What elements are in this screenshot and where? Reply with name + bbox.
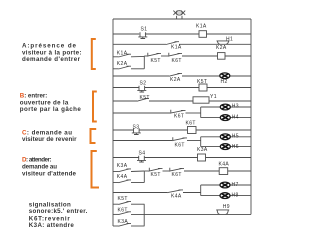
- svg-text:K5T: K5T: [118, 196, 128, 202]
- svg-text:H2: H2: [221, 79, 228, 85]
- solenoid valve Y1: [193, 97, 209, 103]
- lamp H3: [220, 104, 230, 110]
- svg-text:K3A: attendre: K3A: attendre: [29, 222, 75, 229]
- branch wire K3A signal: [113, 225, 119, 227]
- junction wire H7/H8: [200, 185, 202, 196]
- svg-text:K5T: K5T: [140, 95, 150, 101]
- svg-text:K4A: K4A: [219, 162, 230, 168]
- coil K3A: [198, 154, 206, 161]
- branch wire K5T signal: [113, 203, 119, 205]
- wire H8: [201, 195, 251, 197]
- svg-text:K2A: K2A: [170, 77, 181, 83]
- svg-text:K3A: K3A: [118, 219, 129, 225]
- coil K2A: [218, 53, 226, 60]
- pushbutton S2: [137, 86, 146, 92]
- svg-text:K6T: K6T: [172, 58, 182, 64]
- buzzer H1: [217, 41, 230, 44]
- contact K2A (hold branch): [119, 66, 132, 69]
- lamp H2: [220, 73, 230, 79]
- svg-text:K6T: K6T: [174, 113, 184, 119]
- branch wire K2A hold: [113, 68, 119, 70]
- junction wire H3/H4: [200, 107, 202, 118]
- rung 9 wire: [113, 140, 172, 142]
- svg-text:K3A: K3A: [117, 163, 128, 169]
- svg-text:K3A: K3A: [197, 147, 208, 153]
- svg-text:H4: H4: [232, 115, 239, 121]
- svg-text:K2A: K2A: [216, 45, 227, 51]
- wire H6: [201, 146, 251, 148]
- rung 3 wire: [131, 55, 144, 57]
- svg-text:visiteur d'attende: visiteur d'attende: [22, 170, 77, 177]
- svg-text:K5T: K5T: [151, 58, 161, 64]
- coil K4A: [219, 168, 228, 175]
- lamp H8: [220, 193, 230, 199]
- contact K6T NC (rung 3): [168, 53, 182, 57]
- pushbutton S4: [137, 156, 146, 162]
- junction wire signal: [143, 204, 145, 226]
- svg-text:demande au: demande au: [22, 163, 57, 170]
- contact K5T (rung 6): [137, 98, 149, 101]
- svg-text:S1: S1: [141, 27, 148, 33]
- rung 1 wire: [113, 33, 139, 35]
- svg-text:visiteur de revenir: visiteur de revenir: [22, 136, 77, 143]
- contact K5T NC (rung 3): [147, 53, 161, 57]
- svg-text:S3: S3: [133, 124, 140, 130]
- svg-text:K6T: K6T: [172, 172, 182, 178]
- wire H3: [201, 106, 251, 108]
- bracket D: [92, 151, 100, 188]
- branch wire K4A hold: [113, 182, 119, 184]
- svg-text:sonore:k5.' entrer.: sonore:k5.' entrer.: [29, 208, 88, 215]
- rung 2 wire: [113, 43, 166, 45]
- contact K5T NC (rung 11): [149, 168, 163, 172]
- svg-text:K5T: K5T: [151, 172, 161, 178]
- junction wire rung 11: [143, 171, 145, 182]
- junction wire rung 3: [143, 56, 145, 69]
- contact K6T NC (rung 9): [172, 137, 187, 141]
- bracket B: [93, 92, 97, 122]
- svg-text:K6T: K6T: [186, 121, 196, 127]
- branch wire K3A hold: [113, 171, 119, 173]
- svg-text:H1: H1: [226, 36, 233, 42]
- rung 6 wire: [113, 100, 137, 102]
- svg-text:H3: H3: [232, 104, 239, 110]
- contact K5T (signal): [119, 202, 132, 205]
- lamp H4: [220, 115, 230, 121]
- svg-text:K6T: K6T: [118, 207, 128, 213]
- junction wire H5/H6: [200, 137, 202, 147]
- svg-text:K6T: K6T: [175, 142, 185, 148]
- contact K1A (rung 2): [166, 42, 179, 45]
- svg-text:K1A: K1A: [171, 45, 182, 51]
- contact K6T NC (rung 11): [169, 168, 184, 172]
- wire H4: [201, 117, 251, 119]
- pushbutton S1: [138, 32, 147, 38]
- rung 7 wire: [113, 112, 170, 114]
- wire H7: [201, 184, 251, 186]
- pushbutton S3: [132, 128, 141, 134]
- svg-text:H8: H8: [232, 193, 239, 199]
- contact K3A (signal): [119, 223, 132, 226]
- svg-text:H6: H6: [232, 144, 239, 150]
- wire H5: [201, 136, 251, 138]
- coil K1A: [199, 31, 207, 38]
- lamp H6: [220, 144, 230, 150]
- svg-text:S4: S4: [139, 150, 146, 156]
- rung 11 wire: [131, 170, 144, 173]
- rung 10 wire: [113, 157, 139, 159]
- svg-text:K4A: K4A: [117, 174, 128, 180]
- rung 4 wire: [113, 75, 169, 77]
- rung 5 wire: [113, 87, 139, 89]
- lamp H5: [220, 134, 230, 140]
- svg-text:demande d'entrer: demande d'entrer: [22, 56, 81, 63]
- coil K5T: [199, 84, 207, 91]
- contact K2A (rung 4): [169, 73, 182, 76]
- svg-text:H9: H9: [223, 204, 230, 210]
- buzzer H9: [216, 210, 229, 215]
- contact K6T NC (rung 7): [170, 110, 186, 114]
- svg-text:H7: H7: [232, 182, 239, 188]
- bracket A: [92, 39, 96, 69]
- left rail: [112, 19, 114, 226]
- branch wire K1A hold: [113, 56, 119, 58]
- wire H9: [131, 213, 251, 215]
- bracket C: [91, 129, 97, 143]
- rung 12 wire: [113, 192, 167, 194]
- contact K4A (hold branch): [119, 180, 132, 183]
- svg-text:porte par la gâche: porte par la gâche: [20, 106, 82, 113]
- top rail: [113, 18, 251, 20]
- svg-text:K1A: K1A: [117, 50, 128, 56]
- contact K6T (signal): [119, 212, 132, 215]
- contact K4A (rung 12): [167, 190, 183, 193]
- lamp H7: [220, 182, 230, 188]
- svg-text:S2: S2: [140, 81, 147, 87]
- svg-text:K5T: K5T: [197, 79, 207, 85]
- svg-text:K4A: K4A: [171, 193, 182, 199]
- contact K1A (hold branch): [119, 54, 132, 57]
- svg-text:K1A: K1A: [196, 24, 207, 30]
- contact K3A (hold branch): [119, 169, 132, 172]
- svg-text:Y1: Y1: [210, 94, 217, 100]
- rung 8 wire: [113, 129, 134, 131]
- supply source X1: [173, 10, 185, 19]
- svg-text:K2A: K2A: [117, 61, 128, 67]
- branch wire K6T signal: [113, 213, 119, 215]
- svg-text:H5: H5: [232, 134, 239, 140]
- right rail: [250, 19, 252, 214]
- coil K6T: [188, 127, 197, 134]
